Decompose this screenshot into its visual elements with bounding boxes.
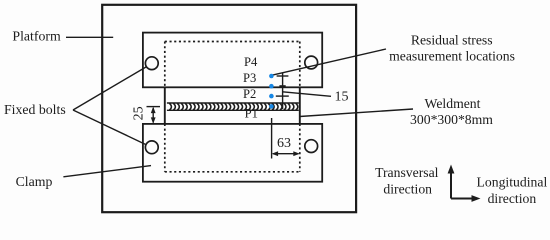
svg-text:direction: direction — [488, 191, 537, 206]
svg-text:P2: P2 — [243, 87, 256, 101]
svg-text:Longitudinal: Longitudinal — [477, 175, 548, 190]
svg-text:Clamp: Clamp — [16, 174, 53, 189]
svg-text:Transversal: Transversal — [375, 165, 439, 180]
svg-text:300*300*8mm: 300*300*8mm — [410, 112, 493, 127]
svg-text:P1: P1 — [245, 106, 258, 120]
svg-text:P4: P4 — [244, 55, 258, 69]
svg-text:Fixed bolts: Fixed bolts — [4, 102, 66, 117]
svg-text:measurement locations: measurement locations — [389, 49, 515, 64]
svg-text:Residual stress: Residual stress — [411, 33, 493, 48]
svg-text:direction: direction — [383, 182, 432, 197]
svg-text:P3: P3 — [243, 71, 256, 85]
svg-text:63: 63 — [277, 136, 291, 151]
svg-text:Platform: Platform — [12, 29, 61, 44]
svg-text:25: 25 — [131, 106, 146, 120]
svg-text:Weldment: Weldment — [425, 96, 481, 111]
svg-text:15: 15 — [335, 90, 349, 105]
